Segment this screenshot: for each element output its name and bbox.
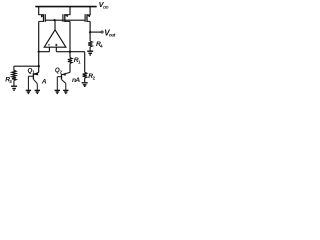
- ground R4: [87, 51, 93, 55]
- pmos M3: [85, 7, 91, 22]
- wire op-amp output: [54, 20, 56, 30]
- wire inverting input: [39, 47, 50, 52]
- label Vout: [104, 28, 116, 37]
- label VDD: [99, 0, 109, 10]
- wire node to R4: [89, 32, 91, 41]
- wire R4 to ground: [89, 47, 91, 51]
- wire R2 to ground: [84, 78, 86, 82]
- pmos M1: [38, 7, 45, 22]
- ground Q1 collector: [35, 90, 40, 93]
- label Q2: [55, 67, 63, 74]
- resistor R2: [83, 72, 87, 78]
- ground R2: [82, 83, 88, 87]
- wire R3 to ground: [13, 81, 15, 86]
- wire to Vout terminal: [90, 31, 101, 33]
- wire M2 drain: [69, 21, 71, 57]
- resistor R4: [88, 41, 92, 47]
- label R4: [96, 41, 103, 49]
- svg-text:A: A: [41, 79, 47, 86]
- ground Q2 base: [55, 90, 60, 93]
- wire non-inverting input: [56, 47, 70, 52]
- ground R3: [11, 86, 17, 90]
- node R3 tap on left branch: [38, 65, 40, 67]
- terminal Vout: [101, 31, 103, 33]
- label R1: [74, 57, 81, 65]
- transistor Q2: [57, 72, 70, 90]
- wire gate bus: [45, 19, 85, 21]
- wire to R3: [14, 66, 39, 71]
- op-amp U1: [44, 30, 66, 47]
- resistor R3: [12, 70, 16, 80]
- svg-text:1: 1: [78, 60, 81, 65]
- svg-text:4: 4: [100, 44, 103, 49]
- node minus input on left branch: [38, 51, 40, 53]
- wire M1 drain / left branch: [38, 21, 40, 72]
- VDD rail: [35, 6, 96, 8]
- pmos M2: [63, 7, 71, 22]
- node plus input on right branch: [69, 51, 71, 53]
- resistor R1: [68, 58, 72, 64]
- ground Q2 collector: [63, 90, 68, 93]
- label R3: [5, 77, 12, 85]
- svg-text:2: 2: [60, 70, 63, 75]
- node gate bus / op-amp output junction: [53, 19, 55, 21]
- svg-text:A: A: [74, 77, 80, 84]
- svg-text:out: out: [109, 32, 116, 37]
- ground Q1 base: [26, 90, 31, 93]
- wire R1 to Q2: [69, 63, 71, 72]
- label nA (emitter area of Q2): [72, 77, 80, 84]
- svg-text:2: 2: [93, 76, 96, 81]
- svg-text:DD: DD: [103, 5, 109, 10]
- transistor Q1: [28, 72, 38, 90]
- node Vout: [89, 31, 91, 33]
- wire M3 drain: [89, 21, 91, 32]
- label R2: [88, 73, 95, 81]
- label Q1: [28, 67, 36, 74]
- svg-text:3: 3: [9, 79, 12, 84]
- wire to R2 branch: [70, 52, 85, 73]
